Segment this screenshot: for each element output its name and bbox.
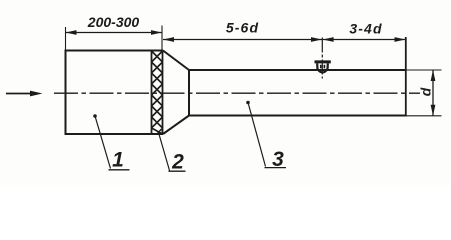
extension lines for d (right side)	[406, 69, 442, 71]
leader for label 3	[246, 101, 286, 168]
inlet flow arrow	[6, 91, 43, 97]
extension line at mesh disc	[161, 26, 163, 51]
dimension 200-300	[66, 30, 163, 35]
chamber body outline (component 1)	[66, 50, 164, 136]
centerline (horizontal axis, dash-dot)	[54, 92, 420, 94]
dimension d (vertical)	[431, 70, 436, 116]
svg-text:d: d	[418, 87, 434, 96]
dimension 5-6d	[163, 37, 322, 42]
dimension 3-4d	[323, 37, 406, 42]
svg-text:1: 1	[112, 149, 124, 172]
svg-text:3: 3	[272, 148, 284, 171]
tube end line / extension	[405, 37, 407, 117]
fitting boss on tube top	[315, 62, 331, 73]
extension line left of 200-300	[65, 27, 67, 50]
leader for label 1	[93, 114, 129, 170]
svg-text:200-300: 200-300	[87, 14, 140, 30]
cone transition	[163, 51, 189, 135]
svg-text:3-4d: 3-4d	[349, 21, 382, 37]
tailpipe tube (component 3)	[189, 70, 406, 116]
svg-text:2: 2	[171, 151, 184, 174]
fitting centerline (vertical dash-dot)	[321, 38, 323, 79]
leader for label 2	[159, 133, 186, 172]
mesh disc hatched strip (component 2)	[152, 51, 163, 135]
svg-text:5-6d: 5-6d	[226, 20, 259, 36]
